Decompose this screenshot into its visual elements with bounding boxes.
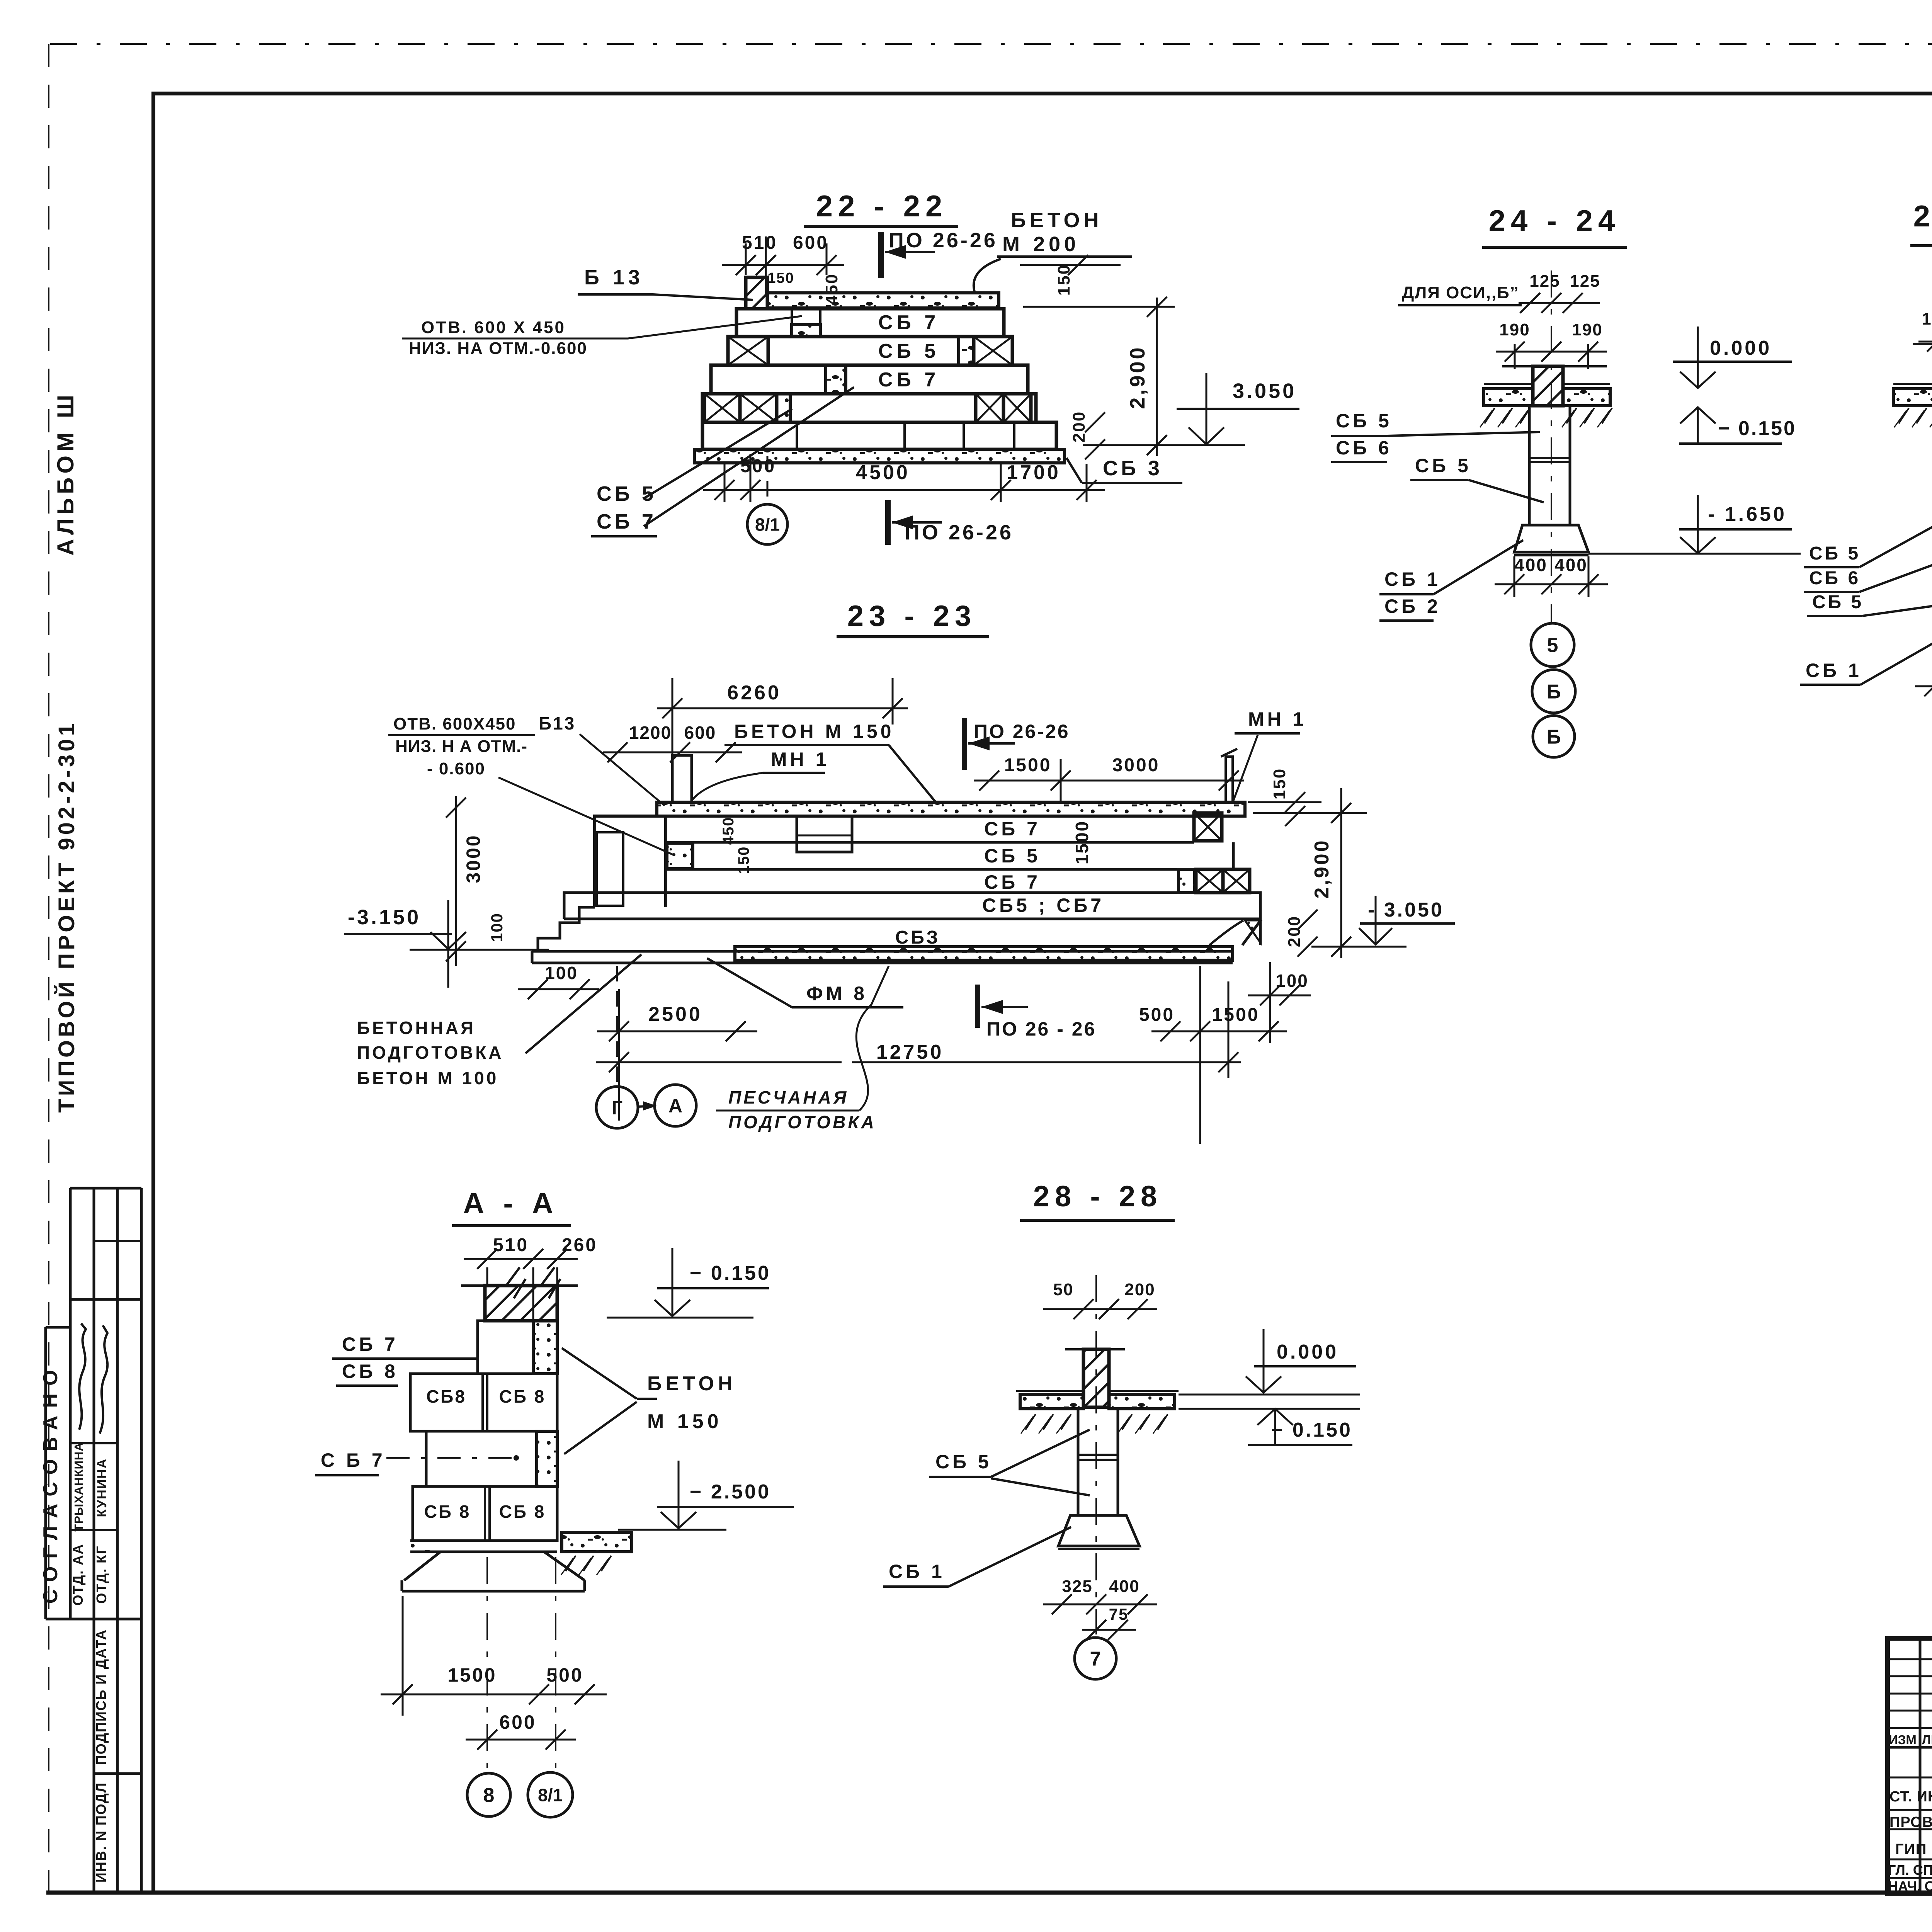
svg-text:− 2.500: − 2.500 — [690, 1481, 771, 1503]
svg-text:8: 8 — [483, 1784, 495, 1807]
svg-text:150: 150 — [1270, 768, 1289, 799]
svg-text:СБ 6: СБ 6 — [1809, 568, 1861, 588]
svg-text:БЕТОН: БЕТОН — [647, 1372, 736, 1395]
row SB5 of 22-22 — [728, 337, 1012, 365]
footing of A-A — [410, 1539, 557, 1542]
concrete joint of A-A middle — [537, 1431, 557, 1486]
svg-text:510: 510 — [742, 233, 777, 253]
svg-text:24 - 24: 24 - 24 — [1489, 204, 1621, 238]
svg-text:100: 100 — [1276, 971, 1309, 991]
footing SB1 of 28-28 — [1058, 1515, 1139, 1546]
svg-text:БЕТОННАЯ: БЕТОННАЯ — [357, 1018, 476, 1038]
svg-text:500: 500 — [1139, 1005, 1175, 1025]
svg-text:200: 200 — [1124, 1280, 1155, 1299]
svg-text:СТ. ИНЖ.: СТ. ИНЖ. — [1889, 1789, 1932, 1805]
svg-text:МН 1: МН 1 — [1248, 708, 1306, 730]
concrete column of A-A top — [533, 1321, 557, 1374]
row SB7 middle of A-A — [426, 1431, 537, 1486]
svg-text:25 - 25: 25 - 25 — [1913, 199, 1932, 233]
svg-text:ПЕСЧАНАЯ: ПЕСЧАНАЯ — [728, 1087, 849, 1107]
svg-text:СБ5 ; СБ7: СБ5 ; СБ7 — [982, 895, 1104, 916]
svg-text:СБ 5: СБ 5 — [878, 340, 939, 362]
svg-text:600: 600 — [684, 723, 716, 743]
paper edge dashed left — [48, 44, 49, 1893]
svg-text:190: 190 — [1499, 320, 1530, 339]
block SB7 SB8 top of A-A — [478, 1321, 533, 1374]
svg-text:СБ 5: СБ 5 — [935, 1451, 992, 1473]
svg-text:ДЛЯ ОСИ,,Б”: ДЛЯ ОСИ,,Б” — [1402, 283, 1519, 302]
svg-text:ФМ 8: ФМ 8 — [806, 983, 867, 1004]
svg-text:8/1: 8/1 — [755, 515, 780, 535]
leader dash to SB7 of A-A — [386, 1457, 516, 1459]
svg-text:СБ 5: СБ 5 — [597, 482, 656, 505]
section mark PO 26-26 bottom of 22-22 — [885, 500, 891, 545]
svg-text:23 - 23: 23 - 23 — [847, 600, 977, 633]
svg-text:БЕТОН М 150: БЕТОН М 150 — [734, 721, 894, 742]
svg-text:ТРЫХАНКИНА: ТРЫХАНКИНА — [72, 1442, 85, 1531]
svg-text:СБ 3: СБ 3 — [1103, 457, 1163, 480]
svg-text:12750: 12750 — [876, 1041, 944, 1063]
row SB7 lower of 22-22 — [711, 365, 1028, 394]
svg-text:СБЗ: СБЗ — [895, 927, 940, 948]
svg-text:БЕТОН: БЕТОН — [1011, 209, 1102, 232]
svg-text:325: 325 — [1062, 1577, 1092, 1596]
svg-text:БЕТОН М 100: БЕТОН М 100 — [357, 1068, 498, 1088]
ground hatch under 25-25 slab — [1899, 408, 1909, 423]
svg-text:СБ 8: СБ 8 — [342, 1361, 398, 1382]
column top cap of 24-24 — [1502, 365, 1607, 367]
svg-text:150: 150 — [767, 270, 794, 286]
svg-text:2,900: 2,900 — [1126, 345, 1149, 409]
row SB5 of 23-23 — [666, 868, 1233, 871]
svg-text:ОТВ. 600Х450: ОТВ. 600Х450 — [393, 714, 516, 733]
svg-text:Г: Г — [612, 1097, 622, 1119]
svg-text:СБ 1: СБ 1 — [1384, 568, 1441, 590]
svg-text:ПРОВЕР.: ПРОВЕР. — [1889, 1814, 1932, 1830]
svg-text:НИЗ. Н А ОТМ.-: НИЗ. Н А ОТМ.- — [395, 737, 527, 756]
svg-text:АЛЬБОМ Ш: АЛЬБОМ Ш — [53, 391, 78, 556]
svg-text:А - А: А - А — [463, 1187, 558, 1220]
ground hatch under A-A slab — [566, 1556, 576, 1571]
svg-text:ИЗМ: ИЗМ — [1889, 1733, 1917, 1747]
svg-text:ПОДГОТОВКА: ПОДГОТОВКА — [728, 1112, 876, 1132]
svg-text:СБ 7: СБ 7 — [878, 369, 939, 391]
svg-text:СБ 5: СБ 5 — [1809, 543, 1861, 564]
wall top break line of A-A — [461, 1284, 578, 1287]
svg-text:М 150: М 150 — [647, 1410, 723, 1433]
axis circle B second of 24-24 — [1533, 716, 1575, 757]
svg-text:ГИП: ГИП — [1895, 1841, 1927, 1857]
svg-text:СБ8: СБ8 — [426, 1386, 466, 1406]
axis circle 8/1 of 22-22 — [767, 456, 769, 504]
row SB5 SB7 wide of 23-23 — [564, 892, 1260, 893]
X block top right of 23-23 — [1194, 813, 1222, 841]
svg-text:СБ 2: СБ 2 — [1384, 595, 1441, 617]
svg-text:3000: 3000 — [463, 834, 484, 883]
B13 upstand at left of 23-23 — [672, 755, 692, 802]
svg-text:Б 13: Б 13 — [584, 266, 644, 289]
column of 28-28 — [1077, 1409, 1080, 1515]
svg-text:125: 125 — [1570, 272, 1600, 291]
svg-text:0.000: 0.000 — [1710, 337, 1772, 359]
axis circle 7 of 28-28 — [1075, 1638, 1116, 1679]
axis line of 24-24 — [1551, 270, 1552, 623]
svg-text:- 3.050: - 3.050 — [1368, 899, 1444, 921]
section mark PO 26-26 top of 22-22 — [878, 232, 884, 278]
svg-text:ОТД. КГ: ОТД. КГ — [94, 1545, 109, 1604]
svg-text:- 0.600: - 0.600 — [427, 759, 485, 778]
svg-text:СБ 1: СБ 1 — [1806, 660, 1862, 681]
svg-text:МН 1: МН 1 — [771, 748, 829, 770]
svg-text:5: 5 — [1547, 634, 1558, 657]
svg-text:500: 500 — [546, 1664, 583, 1686]
svg-text:СБ 7: СБ 7 — [597, 510, 656, 533]
floor slab right of 24-24 — [1563, 389, 1610, 406]
drawing frame left — [151, 94, 155, 1893]
stamp staff row lines — [1888, 1777, 1932, 1779]
paper edge dash-dot top — [50, 43, 1932, 45]
MN1 anchor right element — [1226, 757, 1233, 802]
svg-text:500: 500 — [740, 456, 776, 476]
floor slab of 28-28 — [1020, 1395, 1083, 1409]
svg-text:СБ 1: СБ 1 — [889, 1561, 945, 1582]
drawing frame bottom — [46, 1891, 1932, 1895]
svg-text:А: А — [668, 1095, 682, 1117]
svg-text:Б: Б — [1546, 681, 1561, 703]
axis circle 5 of 24-24 — [1531, 623, 1574, 667]
svg-text:СБ 8: СБ 8 — [499, 1386, 546, 1406]
svg-text:1500: 1500 — [1072, 820, 1092, 864]
svg-text:1500: 1500 — [1004, 755, 1052, 776]
svg-text:0.000: 0.000 — [1277, 1341, 1338, 1363]
axis of 28-28 — [1095, 1275, 1097, 1634]
stamp left thin rows — [1888, 1658, 1932, 1660]
axis circle B of 24-24 — [1532, 670, 1575, 713]
svg-text:СОГЛАСОВАНО: СОГЛАСОВАНО — [39, 1362, 62, 1604]
svg-text:СБ 5: СБ 5 — [1415, 455, 1471, 476]
svg-text:ЛИСТ: ЛИСТ — [1922, 1733, 1932, 1747]
svg-text:М 200: М 200 — [1002, 233, 1080, 256]
svg-text:1200: 1200 — [629, 723, 672, 743]
svg-text:3.050: 3.050 — [1233, 379, 1296, 403]
svg-text:СБ 7: СБ 7 — [984, 818, 1041, 840]
svg-text:50: 50 — [1053, 1280, 1074, 1299]
column hatched section of 28-28 — [1083, 1349, 1109, 1407]
svg-text:ОТВ. 600 X 450: ОТВ. 600 X 450 — [421, 318, 566, 337]
top slab of 22-22 (concrete) — [767, 293, 999, 308]
svg-text:СБ 6: СБ 6 — [1336, 437, 1392, 459]
svg-text:260: 260 — [562, 1235, 597, 1255]
row SB7 second of 23-23 — [666, 891, 1196, 894]
row SB8 SB8 lower of A-A — [413, 1486, 557, 1541]
column cap of 25-25 — [1913, 343, 1932, 345]
row SB7 upper of 23-23 — [666, 815, 1194, 818]
svg-text:СБ 5: СБ 5 — [1336, 410, 1392, 432]
svg-text:6260: 6260 — [727, 682, 781, 704]
svg-text:ТИПОВОЙ ПРОЕКТ 902-2-301: ТИПОВОЙ ПРОЕКТ 902-2-301 — [54, 720, 79, 1113]
svg-text:400: 400 — [1554, 555, 1588, 575]
svg-text:НАЧ. ОТЛ.: НАЧ. ОТЛ. — [1888, 1878, 1932, 1894]
svg-text:− 0.150: − 0.150 — [1718, 417, 1796, 440]
svg-text:ПО 26 - 26: ПО 26 - 26 — [986, 1018, 1096, 1040]
svg-text:ПО 26-26: ПО 26-26 — [889, 229, 998, 252]
svg-text:600: 600 — [499, 1711, 536, 1733]
section mark PO26-26 top of 23-23 — [962, 718, 967, 770]
svg-text:3000: 3000 — [1112, 755, 1160, 776]
row SB7 upper of 22-22 — [736, 309, 1004, 337]
floor slab right of A-A — [562, 1532, 632, 1552]
svg-text:22 - 22: 22 - 22 — [816, 189, 948, 223]
svg-text:-3.150: -3.150 — [348, 906, 421, 929]
section mark PO26-26 bottom of 23-23 — [975, 985, 980, 1028]
svg-text:1500: 1500 — [1212, 1005, 1260, 1025]
left L-wall of 23-23 — [595, 816, 666, 907]
svg-text:ПОДГОТОВКА: ПОДГОТОВКА — [357, 1043, 504, 1063]
svg-text:150: 150 — [1054, 264, 1073, 296]
axis circles 8 and 8/1 of A-A — [486, 1557, 488, 1773]
svg-text:600: 600 — [793, 233, 828, 253]
svg-text:200: 200 — [1070, 411, 1088, 442]
svg-text:- 1.650: - 1.650 — [1708, 503, 1787, 526]
svg-text:200: 200 — [1285, 915, 1304, 947]
svg-text:125: 125 — [1529, 272, 1560, 291]
side table signature 2 — [100, 1325, 107, 1434]
drawing frame top — [151, 92, 1932, 95]
stamp header row line — [1888, 1746, 1932, 1749]
svg-text:ОТД. АА: ОТД. АА — [70, 1544, 86, 1606]
svg-text:СБ 7: СБ 7 — [878, 311, 939, 334]
svg-text:190: 190 — [1572, 320, 1602, 339]
svg-text:КУНИНА: КУНИНА — [95, 1458, 109, 1517]
axis circles G and A of 23-23 — [616, 966, 618, 1088]
svg-text:1500: 1500 — [447, 1664, 497, 1686]
svg-text:СБ 5: СБ 5 — [984, 845, 1041, 867]
svg-text:400: 400 — [1514, 555, 1548, 575]
svg-text:7: 7 — [1090, 1648, 1101, 1670]
footing band of 23-23 — [564, 918, 1260, 920]
svg-text:НИЗ. НА ОТМ.-0.600: НИЗ. НА ОТМ.-0.600 — [409, 339, 587, 358]
svg-text:− 0.150: − 0.150 — [690, 1262, 771, 1284]
svg-text:2500: 2500 — [648, 1003, 702, 1026]
svg-text:190: 190 — [1922, 310, 1932, 328]
column cap of 28-28 — [1065, 1348, 1125, 1350]
svg-text:510: 510 — [493, 1235, 529, 1255]
side table grid — [44, 1327, 47, 1619]
svg-text:ПО 26-26: ПО 26-26 — [905, 521, 1014, 544]
bottom slab SB3 of 22-22 — [694, 449, 1065, 463]
svg-text:75: 75 — [1109, 1605, 1129, 1623]
svg-text:СБ 8: СБ 8 — [424, 1502, 471, 1522]
footing SB1 of 24-24 — [1514, 525, 1588, 552]
svg-text:С Б 7: С Б 7 — [321, 1449, 386, 1471]
svg-text:СБ 5: СБ 5 — [1812, 592, 1864, 612]
column of 24-24 — [1528, 406, 1531, 525]
svg-text:100: 100 — [545, 963, 578, 983]
svg-text:ПО 26-26: ПО 26-26 — [974, 721, 1070, 742]
row 4 cross-hatched blocks of 22-22 — [702, 394, 1036, 422]
svg-text:8/1: 8/1 — [538, 1785, 563, 1805]
extension line 1500-3000 of 23-23 — [1060, 759, 1062, 804]
wall hatched of A-A — [485, 1286, 557, 1321]
ground hatch under 24-24 slab — [1485, 408, 1495, 423]
svg-text:СБ 8: СБ 8 — [499, 1502, 546, 1522]
row 5 bottom blocks of 22-22 — [702, 422, 1056, 449]
row SB8 SB8 of A-A — [410, 1374, 557, 1431]
ground hatch under 28-28 slab — [1026, 1414, 1036, 1430]
svg-text:ПОДПИСЬ И ДАТА: ПОДПИСЬ И ДАТА — [93, 1629, 109, 1765]
svg-text:ИНВ. N ПОДЛ: ИНВ. N ПОДЛ — [93, 1782, 109, 1883]
bottom slab SB3 of 23-23 — [532, 950, 1233, 953]
svg-text:150: 150 — [735, 846, 752, 874]
floor slab left of 25-25 — [1893, 389, 1932, 406]
column hatched section of 24-24 — [1533, 366, 1563, 406]
stamp outer box — [1888, 1638, 1932, 1893]
svg-text:ГЛ. СПЕЦ.: ГЛ. СПЕЦ. — [1888, 1862, 1932, 1878]
top slab of 23-23 — [657, 802, 1245, 816]
svg-text:Б: Б — [1546, 726, 1561, 748]
svg-text:Б13: Б13 — [539, 713, 576, 733]
svg-text:− 0.150: − 0.150 — [1271, 1419, 1352, 1441]
left steps of 23-23 — [538, 907, 595, 951]
svg-text:1700: 1700 — [1007, 461, 1061, 484]
side table signature 1 — [79, 1323, 86, 1430]
svg-text:400: 400 — [1109, 1577, 1139, 1596]
block B13 hatched — [746, 277, 767, 309]
svg-text:2,900: 2,900 — [1311, 838, 1333, 898]
svg-text:450: 450 — [720, 817, 737, 845]
svg-text:28 - 28: 28 - 28 — [1033, 1180, 1163, 1213]
MN1 channel recess — [797, 816, 852, 852]
svg-text:4500: 4500 — [856, 461, 910, 484]
stamp left grid verticals — [1919, 1638, 1922, 1893]
svg-text:СБ 7: СБ 7 — [984, 871, 1041, 893]
floor slab left of 24-24 — [1484, 389, 1533, 406]
svg-text:СБ 7: СБ 7 — [342, 1333, 398, 1355]
svg-text:100: 100 — [488, 913, 506, 942]
leader line to SB5 SB7 labels — [644, 387, 854, 526]
